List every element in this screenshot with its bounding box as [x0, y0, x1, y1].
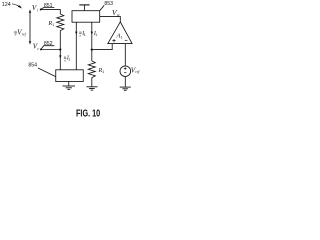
svg-text:n: n [80, 34, 82, 38]
op-amp output wire to Vg [100, 16, 121, 22]
op-amp - input sign [125, 39, 128, 41]
reference number 854 [28, 63, 37, 69]
wire Vi to R1 top [41, 10, 60, 14]
caption FIG. 10 [76, 109, 100, 120]
svg-text:124: 124 [2, 2, 11, 8]
svg-text:1: 1 [84, 33, 86, 37]
wire A: R1 to box 854 [59, 31, 61, 70]
svg-text:852: 852 [44, 41, 53, 47]
junction dot wire C to op-amp [91, 49, 93, 51]
current label I1 on wire C [93, 31, 98, 37]
leader line 851 [41, 8, 55, 10]
svg-text:i: i [37, 7, 39, 12]
current arrow on wire B [75, 32, 77, 35]
svg-text:c: c [37, 46, 39, 51]
svg-text:ref: ref [135, 70, 140, 74]
gate terminal of 853 [83, 5, 85, 11]
svg-text:ref: ref [22, 32, 27, 36]
node Vg label [112, 8, 120, 17]
label A1 [116, 33, 123, 40]
svg-text:1: 1 [68, 58, 70, 62]
wire Vref source to ground [124, 77, 126, 87]
label (m/n)Vref [14, 29, 27, 37]
current label (m/n)I1 on wire B [79, 30, 86, 38]
wire Vc [41, 49, 60, 51]
node Vc dot [40, 48, 42, 50]
wire op-amp - input to Vref source [124, 44, 126, 66]
wire C: 853 right pin to R1 bottom [91, 22, 93, 61]
transistor box 853 [72, 11, 100, 23]
op-amp + input sign [112, 39, 115, 42]
current arrow on wire C [91, 32, 93, 35]
op-amp A1 [108, 22, 132, 44]
leader line 853 [100, 5, 104, 10]
label R1 top [47, 20, 54, 27]
label R1 bottom [98, 67, 105, 74]
svg-text:FIG. 10: FIG. 10 [76, 109, 100, 120]
resistor R1 (bottom) [88, 61, 95, 78]
wire B: 853 left pin to 854 [75, 22, 77, 70]
ground under 854 [68, 82, 70, 86]
leader arrow for 124 [12, 4, 20, 7]
voltage source Vref [120, 66, 131, 77]
svg-text:1: 1 [95, 33, 97, 37]
reference number 853 [104, 1, 113, 7]
voltage annotation arrow (m/n)Vref [29, 12, 31, 42]
current label (m/n)I1 on wire A [64, 55, 71, 63]
node Vi dot [40, 9, 42, 11]
transistor box 854 [56, 70, 84, 82]
reference number 851 [44, 3, 53, 9]
junction dot Vc on wire A [59, 48, 61, 50]
ground under Vref source [120, 86, 131, 88]
svg-text:854: 854 [28, 63, 37, 69]
wire C junction to op-amp + input [92, 44, 112, 50]
svg-text:n: n [64, 59, 66, 63]
leader line 854 [38, 68, 56, 77]
resistor R1 (top) [57, 14, 64, 31]
svg-text:851: 851 [44, 3, 53, 9]
svg-text:1: 1 [52, 23, 54, 27]
ground under R1 bottom [86, 86, 97, 88]
node Vi label [32, 4, 39, 12]
reference number 124 [2, 2, 11, 8]
reference number 852 [44, 41, 53, 47]
leader line 852 [41, 46, 54, 50]
label Vref [131, 66, 141, 74]
svg-text:853: 853 [104, 1, 113, 7]
svg-text:1: 1 [102, 70, 104, 74]
node Vc label [33, 43, 40, 51]
wire R1 bottom to ground [91, 78, 93, 87]
svg-text:1: 1 [121, 35, 123, 39]
current arrow on wire A [59, 55, 61, 58]
